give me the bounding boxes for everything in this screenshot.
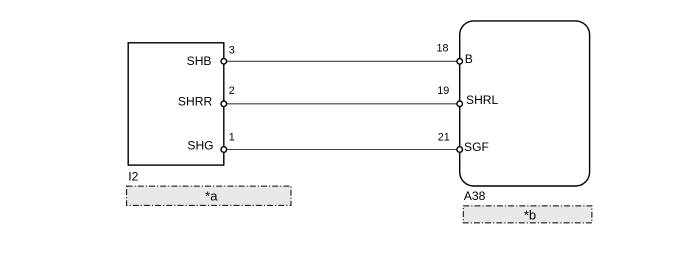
note box *a (127, 186, 291, 205)
svg-text:SHRL: SHRL (466, 93, 499, 107)
pin terminal I2-1 (221, 147, 227, 153)
svg-text:*b: *b (524, 208, 536, 223)
wire SHG to SGF (net SGF) (224, 149, 460, 151)
svg-text:1: 1 (229, 131, 235, 143)
svg-text:SHB: SHB (187, 54, 212, 68)
note box *b (463, 206, 592, 223)
pin terminal A38-21 (457, 147, 463, 153)
svg-text:SHG: SHG (187, 139, 213, 153)
svg-text:18: 18 (437, 43, 449, 55)
svg-text:SGF: SGF (464, 140, 489, 154)
pin terminal I2-3 (221, 59, 227, 65)
pin terminal A38-19 (457, 101, 463, 107)
connector A38 body (460, 21, 590, 186)
wire SHRR to SHRL (net SHRL) (224, 103, 460, 105)
pin terminal A38-18 (457, 59, 463, 65)
svg-text:19: 19 (437, 85, 449, 97)
pin terminal I2-2 (221, 101, 227, 107)
svg-text:A38: A38 (464, 189, 486, 203)
wire SHB to B (net SHB) (224, 60, 460, 62)
svg-text:2: 2 (229, 85, 235, 97)
svg-text:I2: I2 (128, 170, 138, 184)
svg-text:SHRR: SHRR (178, 94, 213, 108)
svg-text:*a: *a (205, 189, 218, 204)
component I2 body (128, 43, 224, 165)
svg-text:21: 21 (438, 132, 450, 144)
svg-text:B: B (465, 52, 473, 66)
svg-text:3: 3 (229, 44, 235, 56)
